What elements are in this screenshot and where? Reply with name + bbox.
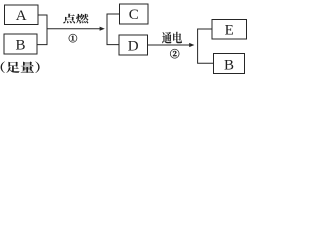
svg-text:B: B: [15, 38, 25, 54]
wire: bracket into E and B: [198, 29, 214, 63]
svg-text:B: B: [224, 58, 234, 74]
box E: [212, 20, 247, 40]
text ① below arrow 1: [69, 34, 77, 42]
svg-text:A: A: [16, 8, 27, 24]
box B (product of electrolysis): [214, 54, 245, 74]
svg-text:E: E: [225, 23, 234, 39]
text （足量） excess, under box B: [1, 61, 40, 73]
arrowhead 1: [100, 27, 105, 31]
box A: [5, 5, 39, 25]
arrowhead 2: [189, 43, 194, 47]
wire: arrow 1 shaft (ignition): [47, 28, 100, 30]
svg-text:C: C: [129, 7, 139, 23]
wire: arrow 2 shaft (electrolysis) from D: [148, 44, 190, 46]
box D: [119, 35, 148, 55]
box B (left reactant, excess): [4, 34, 37, 54]
svg-text:D: D: [128, 39, 139, 55]
text 点燃 (ignite) above arrow 1: [63, 14, 89, 24]
box C: [120, 4, 149, 24]
text ② below arrow 2: [170, 49, 179, 58]
wire: bracket joining A and B outputs: [37, 15, 47, 45]
text 通电 (electrify) above arrow 2: [162, 32, 182, 44]
wire: bracket into C and D: [107, 14, 120, 45]
